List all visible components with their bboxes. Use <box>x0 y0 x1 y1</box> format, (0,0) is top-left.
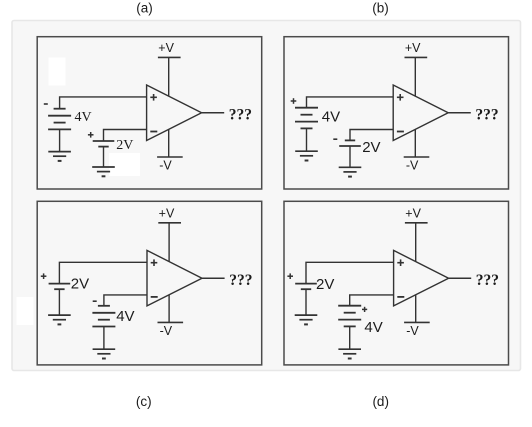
output wire U4 (d) <box>449 277 472 279</box>
wire B8 to ground (d) <box>349 326 351 349</box>
svg-text:2V: 2V <box>362 139 380 156</box>
svg-text:+V: +V <box>158 41 174 55</box>
svg-text:(b): (b) <box>372 0 389 15</box>
ground G5 (c) <box>48 315 71 324</box>
polarity label + for B8 (d) <box>362 307 367 312</box>
wire op-amp to -V supply U4 (d) <box>415 295 417 323</box>
op-amp U4 (d) inverting input marker - <box>397 296 404 298</box>
polarity label - for B6 (c) <box>93 300 97 302</box>
wire battery B7 positive terminal to + input (d) <box>306 262 394 283</box>
wire battery B1 negative terminal to + input (a) <box>60 97 147 109</box>
ground G8 (d) <box>338 349 361 358</box>
wire battery B8 positive terminal to - input (d) <box>350 295 394 306</box>
svg-text:(d): (d) <box>372 394 389 409</box>
svg-text:???: ??? <box>229 272 252 289</box>
polarity label + for B7 (d) <box>287 273 293 279</box>
wire op-amp to -V supply U2 (b) <box>414 129 416 157</box>
wire op-amp to -V supply U1 (a) <box>168 129 170 157</box>
battery B2 (a) (2V, one-cell) <box>93 141 115 147</box>
wire battery B6 negative terminal to - input (c) <box>104 295 147 306</box>
svg-text:???: ??? <box>229 107 252 124</box>
battery B7 (d) (2V, one-cell) <box>295 284 317 290</box>
op-amp U2 (b) noninverting input marker + <box>397 94 404 101</box>
+V supply terminal U1 (a) <box>158 56 181 58</box>
wire +V supply to op-amp U4 (d) <box>415 223 417 262</box>
wire battery B3 positive terminal to + input (b) <box>307 97 394 108</box>
op-amp U3 (c) noninverting input marker + <box>151 259 158 266</box>
wire battery B5 positive terminal to + input (c) <box>59 262 147 283</box>
svg-text:2V: 2V <box>316 276 334 293</box>
outer light frame <box>12 21 521 371</box>
wire B1 to ground (a) <box>59 129 61 151</box>
+V supply terminal U4 (d) <box>405 222 428 224</box>
wire B4 to ground (b) <box>349 146 351 167</box>
panel (a) border box <box>37 37 262 189</box>
polarity label + for B2 (a) <box>88 132 94 138</box>
-V supply terminal U2 (b) <box>404 156 430 158</box>
svg-text:+V: +V <box>159 206 175 220</box>
output wire U2 (b) <box>448 112 471 114</box>
op-amp U3 (c) triangle <box>147 250 202 306</box>
ground G2 (a) <box>92 167 115 176</box>
battery B1 (a) (4V, two-cell) <box>48 109 71 130</box>
wire B6 to ground (c) <box>103 327 105 350</box>
svg-text:(a): (a) <box>136 0 153 15</box>
svg-text:2V: 2V <box>116 138 133 153</box>
svg-text:-V: -V <box>406 324 419 338</box>
wire +V supply to op-amp U2 (b) <box>414 57 416 96</box>
svg-text:(c): (c) <box>136 394 152 409</box>
wire B2 to ground (a) <box>103 147 105 167</box>
-V supply terminal U4 (d) <box>404 321 430 323</box>
ground G3 (b) <box>295 151 318 160</box>
op-amp U4 (d) triangle <box>394 250 449 306</box>
wire +V supply to op-amp U3 (c) <box>168 223 170 262</box>
wire B7 to ground (d) <box>305 289 307 315</box>
svg-text:+V: +V <box>405 206 421 220</box>
panel (d) border box <box>284 201 509 365</box>
battery B8 (d) (4V, two-cell) <box>338 306 361 327</box>
wire +V supply to op-amp U1 (a) <box>168 57 170 96</box>
panel (c) border box <box>37 201 262 365</box>
op-amp U2 (b) triangle <box>393 85 448 141</box>
wire op-amp to -V supply U3 (c) <box>168 295 170 323</box>
battery B5 (c) (2V, one-cell) <box>49 284 71 290</box>
polarity label - for B4 (b) <box>333 138 337 140</box>
op-amp U3 (c) inverting input marker - <box>151 296 158 298</box>
ground G7 (d) <box>295 315 318 324</box>
svg-text:4V: 4V <box>116 308 134 325</box>
battery B6 (c) (4V, two-cell) <box>92 306 115 327</box>
wire battery B2 positive terminal to - input (a) <box>104 130 147 142</box>
battery B3 (b) (4V, two-cell) <box>295 108 318 129</box>
output wire U1 (a) <box>202 112 225 114</box>
svg-text:-V: -V <box>406 158 419 172</box>
svg-text:-V: -V <box>160 324 173 338</box>
ground G4 (b) <box>339 167 362 176</box>
op-amp U1 (a) noninverting input marker + <box>150 94 157 101</box>
svg-text:4V: 4V <box>364 319 382 336</box>
panel (b) border box <box>284 37 509 189</box>
ground G1 (a) <box>48 152 71 161</box>
op-amp U1 (a) triangle <box>147 85 202 141</box>
op-amp U2 (b) inverting input marker - <box>397 131 404 133</box>
-V supply terminal U1 (a) <box>157 156 183 158</box>
svg-text:4V: 4V <box>75 110 92 125</box>
+V supply terminal U2 (b) <box>405 56 428 58</box>
op-amp U4 (d) noninverting input marker + <box>397 259 404 266</box>
polarity label + for B5 (c) <box>41 273 47 279</box>
svg-text:4V: 4V <box>322 109 340 126</box>
-V supply terminal U3 (c) <box>158 321 184 323</box>
wire B3 to ground (b) <box>306 128 308 151</box>
svg-text:???: ??? <box>475 107 498 124</box>
op-amp U1 (a) inverting input marker - <box>150 131 157 133</box>
polarity label + for B3 (b) <box>291 98 297 104</box>
svg-text:2V: 2V <box>71 276 89 293</box>
output wire U3 (c) <box>202 277 225 279</box>
battery B4 (b) (2V, one-cell) <box>339 140 361 146</box>
+V supply terminal U3 (c) <box>158 222 181 224</box>
ground G6 (c) <box>93 349 116 358</box>
wire battery B4 negative terminal to - input (b) <box>350 130 393 141</box>
polarity label - for B1 (a) <box>44 103 48 105</box>
svg-text:???: ??? <box>476 272 499 289</box>
wire B5 to ground (c) <box>58 289 60 315</box>
svg-text:+V: +V <box>405 41 421 55</box>
svg-text:-V: -V <box>159 158 172 172</box>
